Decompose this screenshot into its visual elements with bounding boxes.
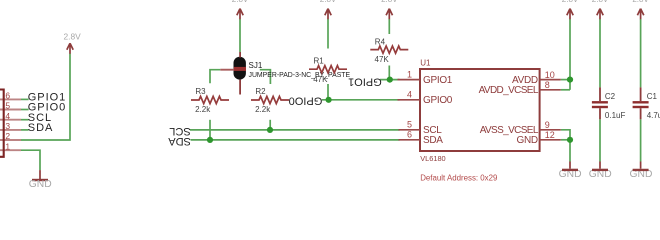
- svg-text:VL6180: VL6180: [420, 154, 445, 163]
- svg-text:2.2k: 2.2k: [195, 105, 211, 114]
- svg-text:2: 2: [5, 131, 10, 141]
- svg-text:U1: U1: [420, 58, 431, 67]
- svg-text:5: 5: [5, 101, 10, 111]
- svg-text:GPIO1: GPIO1: [348, 76, 382, 88]
- svg-text:SJ1: SJ1: [249, 61, 263, 70]
- svg-text:SDA: SDA: [28, 122, 53, 134]
- svg-text:GPIO1: GPIO1: [423, 75, 453, 86]
- svg-text:2.8V: 2.8V: [562, 0, 579, 4]
- svg-text:47K: 47K: [313, 75, 328, 84]
- svg-text:GPIO0: GPIO0: [289, 94, 323, 106]
- svg-text:GND: GND: [29, 179, 52, 190]
- svg-text:C2: C2: [605, 92, 616, 101]
- svg-text:GPIO0: GPIO0: [423, 95, 453, 106]
- svg-text:2.8V: 2.8V: [632, 0, 649, 4]
- svg-text:2.8V: 2.8V: [592, 0, 609, 4]
- svg-text:R3: R3: [195, 87, 206, 96]
- svg-text:1: 1: [407, 69, 412, 79]
- svg-text:R2: R2: [255, 87, 266, 96]
- svg-text:4.7uF: 4.7uF: [647, 111, 660, 120]
- svg-text:Default Address: 0x29: Default Address: 0x29: [420, 174, 498, 183]
- svg-text:4: 4: [407, 90, 412, 100]
- svg-text:12: 12: [545, 130, 555, 140]
- svg-text:SDA: SDA: [168, 135, 191, 147]
- svg-text:4: 4: [5, 111, 10, 121]
- svg-text:9: 9: [545, 120, 550, 130]
- svg-text:2.8V: 2.8V: [63, 32, 81, 42]
- svg-text:GND: GND: [516, 135, 537, 146]
- svg-text:5: 5: [407, 120, 412, 130]
- svg-text:8: 8: [545, 80, 550, 90]
- svg-text:R1: R1: [314, 57, 325, 66]
- svg-text:10: 10: [545, 70, 555, 80]
- svg-text:47K: 47K: [375, 55, 390, 64]
- svg-text:1: 1: [5, 141, 10, 151]
- svg-text:2.2k: 2.2k: [255, 105, 271, 114]
- svg-text:JUMPER-PAD-3-NC_BY_PASTE: JUMPER-PAD-3-NC_BY_PASTE: [249, 72, 351, 79]
- svg-text:0.1uF: 0.1uF: [605, 111, 626, 120]
- svg-text:R4: R4: [375, 37, 386, 46]
- svg-text:6: 6: [5, 91, 10, 101]
- svg-text:6: 6: [407, 130, 412, 140]
- svg-text:2.8V: 2.8V: [320, 0, 337, 4]
- svg-text:2.8V: 2.8V: [381, 0, 398, 4]
- svg-text:2.8V: 2.8V: [232, 0, 249, 4]
- svg-text:C1: C1: [647, 92, 658, 101]
- svg-text:3: 3: [5, 121, 10, 131]
- svg-text:AVDD_VCSEL: AVDD_VCSEL: [479, 85, 539, 96]
- svg-text:SDA: SDA: [423, 135, 443, 146]
